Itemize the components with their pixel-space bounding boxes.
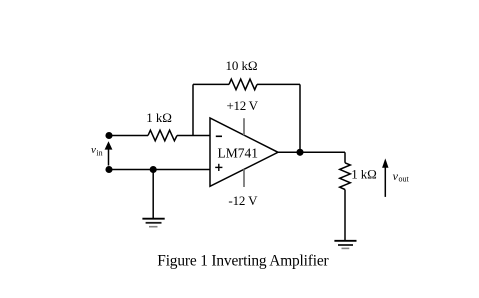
- wire: load top vertical: [344, 152, 346, 163]
- svg-text:+12 V: +12 V: [227, 98, 259, 113]
- op-amp minus sign: [216, 135, 222, 137]
- wire: input top from node to R1: [109, 135, 148, 137]
- wire: R1 to op-amp inverting input: [177, 135, 210, 137]
- power stub: +12V supply pin: [243, 118, 245, 135]
- wire: feedback top right segment: [257, 83, 300, 85]
- svg-text:1 kΩ: 1 kΩ: [146, 110, 172, 125]
- wire: input bottom from node to op-amp noninverting input: [109, 169, 210, 171]
- wire: op-amp output to load corner: [278, 151, 345, 153]
- resistor R_in 1 kOhm zigzag: [148, 130, 177, 141]
- op-amp plus sign: [215, 164, 222, 171]
- svg-text:-12 V: -12 V: [228, 193, 258, 208]
- power stub: -12V supply pin: [243, 169, 245, 187]
- node: input top dot: [105, 132, 112, 139]
- wire: feedback top left segment: [193, 83, 229, 85]
- node: ground junction dot: [150, 166, 157, 173]
- svg-text:1 kΩ: 1 kΩ: [351, 167, 377, 182]
- svg-text:v: v: [91, 144, 96, 156]
- node: output dot: [296, 149, 303, 156]
- arrow: v_in: [105, 141, 113, 165]
- wire: feedback right vertical to output node: [299, 84, 301, 152]
- wire: junction down to ground: [152, 170, 154, 219]
- resistor R_f 10 kOhm zigzag: [229, 79, 257, 90]
- wire: load bottom vertical to ground: [344, 190, 346, 241]
- ground: left symbol: [142, 219, 164, 227]
- svg-text:Figure 1 Inverting Amplifier: Figure 1 Inverting Amplifier: [157, 253, 328, 270]
- svg-text:in: in: [96, 148, 102, 157]
- resistor R_load 1 kOhm vertical zigzag: [340, 163, 351, 190]
- arrow: v_out: [382, 158, 388, 197]
- ground: right symbol: [334, 241, 356, 249]
- wire: feedback left vertical: [192, 84, 194, 135]
- node: input bottom dot: [105, 166, 112, 173]
- svg-text:out: out: [399, 174, 410, 183]
- op-amp U1 LM741 triangle: [210, 118, 278, 186]
- svg-text:LM741: LM741: [218, 145, 259, 160]
- svg-text:10 kΩ: 10 kΩ: [226, 58, 258, 73]
